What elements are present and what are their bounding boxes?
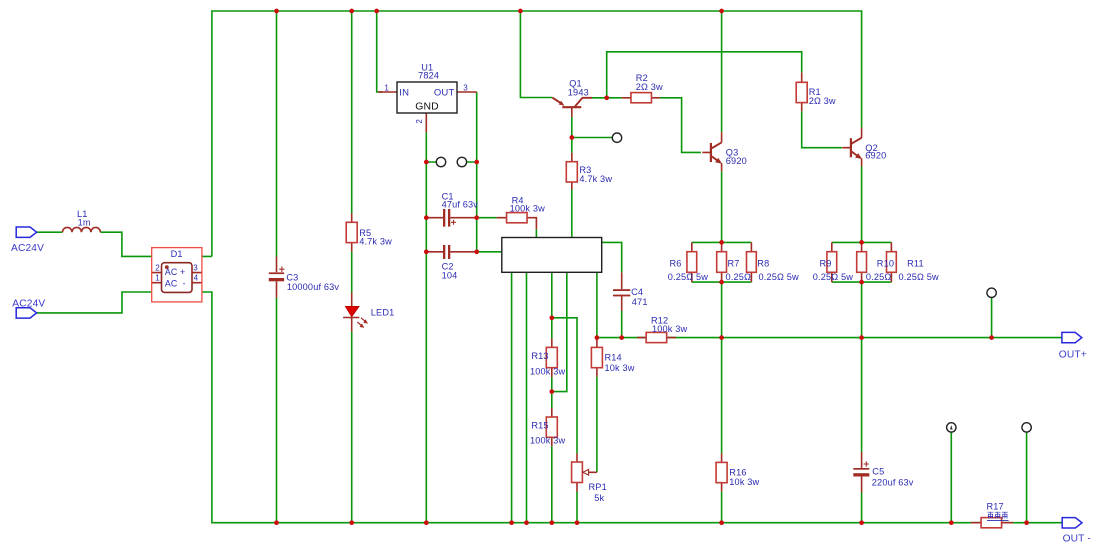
svg-text:100k 3w: 100k 3w [510,204,545,214]
svg-text:R6: R6 [670,258,682,268]
svg-text:1: 1 [384,84,389,93]
svg-text:100k 3w: 100k 3w [530,366,565,376]
svg-text:100k 3w: 100k 3w [652,324,687,334]
svg-text:OUT -: OUT - [1063,534,1091,545]
svg-text:R16: R16 [729,467,746,477]
svg-text:2: 2 [415,119,424,124]
svg-text:100k 3w: 100k 3w [530,435,565,445]
svg-text:RP1: RP1 [589,482,607,492]
svg-text:GND: GND [415,102,439,113]
svg-text:R9: R9 [820,258,832,268]
svg-text:0.25Ω 5w: 0.25Ω 5w [668,272,708,282]
svg-text:10000uf 63v: 10000uf 63v [287,282,339,292]
svg-text:4.7k 3w: 4.7k 3w [579,174,612,184]
svg-text:10k 3w: 10k 3w [605,363,635,373]
svg-text:AC +: AC + [165,267,185,277]
svg-text:0.25Ω 5w: 0.25Ω 5w [813,272,853,282]
svg-text:5k: 5k [594,493,604,503]
svg-text:C5: C5 [872,467,884,477]
svg-text:6920: 6920 [726,156,747,166]
svg-text:1943: 1943 [568,88,589,98]
svg-text:0.25Ω: 0.25Ω [726,272,752,282]
svg-text:D1: D1 [171,249,183,259]
svg-text:OUT+: OUT+ [1059,350,1087,361]
svg-text:AC24V: AC24V [12,298,45,309]
svg-text:AC -: AC - [165,278,186,288]
svg-text:2Ω 3w: 2Ω 3w [636,82,663,92]
svg-text:4.7k 3w: 4.7k 3w [359,236,392,246]
svg-text:R14: R14 [605,353,622,363]
svg-text:AC24V: AC24V [11,243,44,254]
svg-text:R15: R15 [531,421,548,431]
svg-text:3: 3 [193,264,198,273]
svg-text:471: 471 [632,297,648,307]
svg-text:220uf 63v: 220uf 63v [872,478,914,488]
svg-text:C3: C3 [286,272,298,282]
svg-text:10k 3w: 10k 3w [729,477,759,487]
svg-text:3: 3 [463,84,468,93]
svg-text:R7: R7 [728,258,740,268]
svg-text:6920: 6920 [865,151,886,161]
svg-text:2Ω 3w: 2Ω 3w [809,96,836,106]
svg-text:LED1: LED1 [371,308,395,318]
svg-text:1m: 1m [78,217,91,227]
svg-text:R8: R8 [757,258,769,268]
svg-text:R10: R10 [877,258,894,268]
svg-text:4: 4 [194,274,199,283]
svg-text:IN: IN [399,88,409,99]
svg-text:OUT: OUT [434,88,455,99]
svg-text:0.25Ω 5w: 0.25Ω 5w [759,272,799,282]
svg-text:0.25Ω 5w: 0.25Ω 5w [899,272,939,282]
svg-text:1: 1 [155,274,160,283]
svg-text:R17: R17 [987,501,1004,511]
svg-text:47uf 63v: 47uf 63v [442,200,479,210]
svg-text:C4: C4 [631,287,643,297]
svg-text:0.25Ω: 0.25Ω [866,272,892,282]
svg-text:7824: 7824 [418,70,439,80]
svg-text:R13: R13 [531,351,548,361]
svg-text:2: 2 [155,264,160,273]
svg-text:104: 104 [442,270,458,280]
svg-text:R11: R11 [907,258,924,268]
